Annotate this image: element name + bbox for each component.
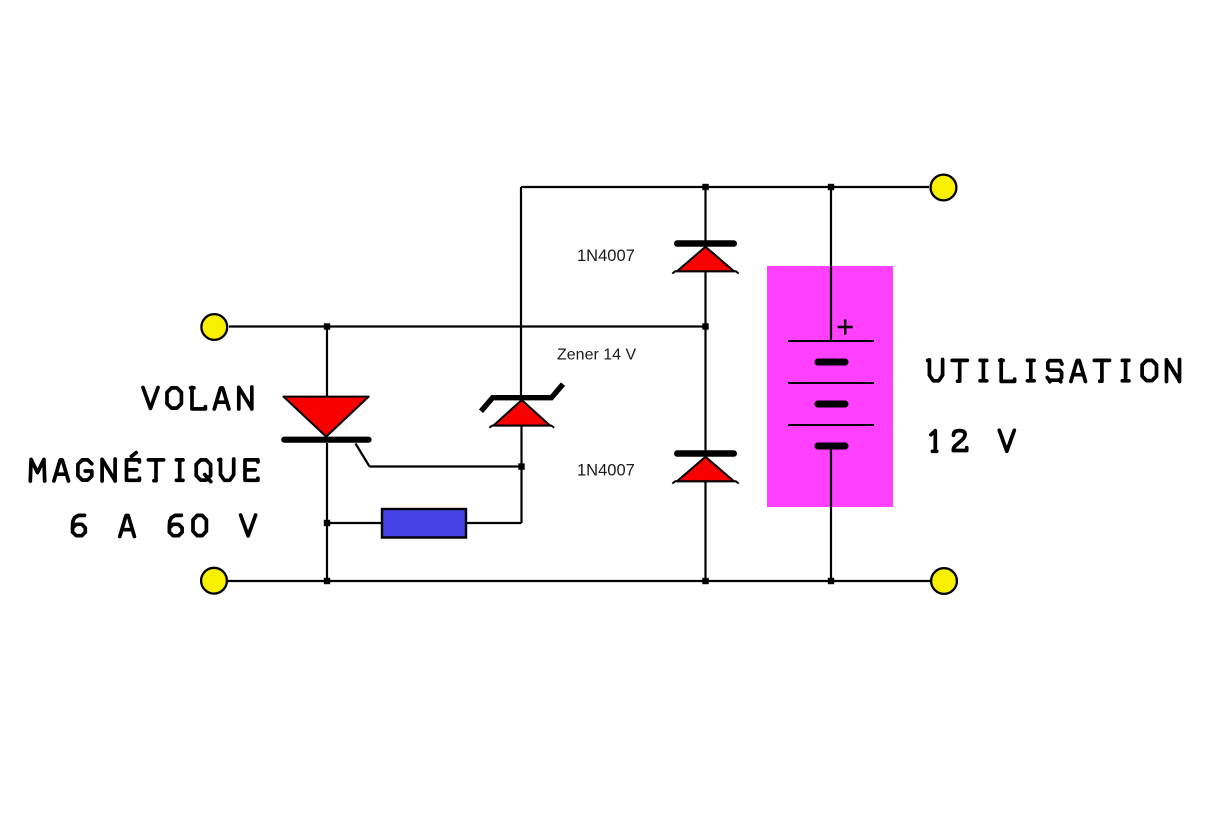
svg-text:1N4007: 1N4007 <box>577 247 635 265</box>
svg-text:Zener 14 V: Zener 14 V <box>557 347 636 364</box>
svg-text:1N4007: 1N4007 <box>577 462 635 480</box>
